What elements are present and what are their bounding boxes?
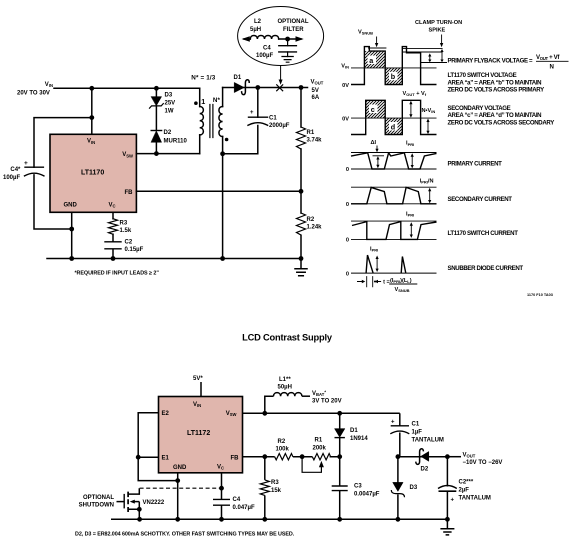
node junction rail-C3 [337,517,342,522]
ground symbol main [295,259,307,276]
svg-text:25V: 25V [165,101,176,107]
node top reference line [351,186,437,188]
node junction C1 [255,85,260,90]
svg-text:R2: R2 [278,439,286,445]
waveform secondary voltage [342,91,436,135]
svg-text:L1**: L1** [279,377,291,383]
node 0 reference line [351,168,437,170]
svg-text:0V: 0V [342,83,349,89]
svg-text:GND: GND [64,203,78,209]
capacitor C1 1uF tantalum [390,413,444,456]
svg-text:R3: R3 [271,480,279,486]
zener D3 25V 1W [150,93,176,115]
svg-text:R1: R1 [307,130,315,136]
node snubber level line [368,47,386,49]
svg-text:N* = 1/3: N* = 1/3 [191,74,215,81]
svg-text:D2: D2 [421,467,429,473]
svg-text:D2, D3 = ER82.004 600mA SCHOTT: D2, D3 = ER82.004 600mA SCHOTTKY. OTHER … [75,532,295,538]
svg-text:0: 0 [346,272,349,278]
svg-text:0V: 0V [342,116,349,122]
node junction VSW-L1 [262,411,267,416]
svg-text:20V TO 30V: 20V TO 30V [17,91,50,97]
svg-text:LCD Contrast Supply: LCD Contrast Supply [242,333,333,343]
svg-text:IPRI/N: IPRI/N [420,178,434,184]
wire primary current trace [351,153,437,169]
node junction VSW-D1 [337,411,342,416]
svg-text:1.24k: 1.24k [307,225,323,231]
wire VC pin drop [221,473,223,520]
svg-text:5µH: 5µH [250,27,261,33]
waveform secondary current [346,178,437,208]
node junction FB divider [299,189,304,194]
svg-text:(IPRI)(LL): (IPRI)(LL) [390,278,412,284]
svg-text:VIN: VIN [45,82,53,88]
node junction rail-R3 [262,517,267,522]
node junction C4 branch [89,115,94,120]
diode D2 MUR110 [151,130,187,145]
wire VC pin drop [112,212,114,258]
wire C4 branch [34,118,92,229]
svg-text:C4: C4 [233,497,241,503]
node 0 reference line [351,203,437,205]
node junction rail-R2 [299,256,304,261]
svg-text:D3: D3 [410,485,418,491]
svg-text:CLAMP TURN-ON: CLAMP TURN-ON [415,20,462,26]
svg-text:E1: E1 [162,456,170,462]
wire secondary current trace [351,187,437,203]
diode D3 schottky [391,457,418,520]
resistor R2 1.24k [297,191,323,258]
wire VIN pin [200,382,202,397]
transformer T1 primary [194,88,205,153]
svg-text:3V TO 20V: 3V TO 20V [312,399,342,405]
svg-text:D1: D1 [350,428,358,434]
svg-text:C1: C1 [412,422,420,428]
node junction C1-D2-D3 [396,454,401,459]
node junction output [299,85,304,90]
svg-text:0: 0 [346,167,349,173]
svg-text:0.0047µF: 0.0047µF [354,492,380,498]
wire E1 pin [138,456,158,458]
svg-text:VOUT: VOUT [463,453,476,459]
diode D1 [234,75,250,95]
waveform primary current [346,140,437,173]
wire secondary ground drop [222,154,224,259]
node junction rail-GND [69,256,74,261]
svg-text:0: 0 [346,202,349,208]
svg-text:VC: VC [217,465,224,471]
svg-text:TANTALUM: TANTALUM [412,438,444,444]
svg-text:VSW: VSW [226,411,237,417]
svg-text:VSW: VSW [122,152,133,158]
svg-text:0.047µF: 0.047µF [233,505,255,511]
wire top input rail [54,87,200,89]
svg-text:+: + [451,498,455,504]
capacitor C3 0.0047uF [332,457,380,520]
ground symbol bottom [440,519,454,535]
node VOUT label [311,80,324,102]
capacitor C4 filter [287,39,289,46]
svg-text:−10V TO −26V: −10V TO −26V [463,460,503,466]
node VBAT label [312,390,342,405]
wire VSW line [243,412,400,414]
inductor L1 50uH [265,377,310,413]
resistor R3 1.5k [109,219,132,235]
svg-text:IPRI: IPRI [406,141,414,147]
svg-text:LT1172: LT1172 [187,430,210,437]
wire VIN pin drop [91,88,93,134]
svg-text:AREA “c” = AREA “d” TO MAINTAI: AREA “c” = AREA “d” TO MAINTAIN [448,112,542,119]
wire FB line [136,190,301,192]
svg-text:3.74k: 3.74k [307,138,323,144]
svg-text:R1: R1 [315,438,323,444]
svg-text:VIN: VIN [193,402,201,408]
resistor R1 3.74k [297,88,323,192]
diode D2 schottky [416,449,429,473]
hatched area d [385,118,402,134]
svg-text:6A: 6A [312,95,320,101]
svg-text:OPTIONAL: OPTIONAL [278,19,309,25]
node measurement arrows [429,56,431,61]
svg-text:C4*: C4* [10,167,21,173]
node flyback voltage level line [421,62,447,64]
wire GND pin drop [71,212,73,258]
svg-text:VSNUB: VSNUB [395,287,410,293]
node junction C4 return [69,227,74,232]
wire bottom ground rail [47,258,301,260]
svg-text:N*: N* [213,97,221,104]
waveform LT1170 switch voltage [341,20,462,89]
wire snubber current trace [366,255,406,273]
svg-text:ZERO DC VOLTS ACROSS SECONDARY: ZERO DC VOLTS ACROSS SECONDARY [448,119,555,126]
inductor L2 [244,38,301,40]
svg-text:R3: R3 [120,221,128,227]
svg-text:IPRI: IPRI [370,247,378,253]
wire FB line [243,456,265,458]
hatched area b [385,68,402,85]
svg-text:VOUT: VOUT [311,80,324,86]
svg-text:LT1170 SWITCH CURRENT: LT1170 SWITCH CURRENT [448,230,519,237]
svg-text:1µF: 1µF [412,430,423,436]
svg-text:+: + [24,160,28,167]
node junction rail-D3 [396,517,401,522]
svg-text:R2: R2 [307,217,315,223]
svg-text:+: + [391,420,395,426]
node top reference line [351,220,437,222]
optional filter ellipse [238,7,324,66]
wire D2 line [400,456,448,458]
svg-text:VIN: VIN [341,64,349,70]
resistor R2 100k [265,439,302,460]
node junction VOUT [445,454,450,459]
svg-text:FB: FB [125,190,134,196]
svg-text:SNUBBER DIODE CURRENT: SNUBBER DIODE CURRENT [448,265,524,272]
svg-text:C2: C2 [125,240,133,246]
node ripple line [373,155,385,157]
svg-text:PRIMARY FLYBACK VOLTAGE =: PRIMARY FLYBACK VOLTAGE = [448,57,534,64]
svg-text:2000µF: 2000µF [269,123,290,129]
node 0 reference line [351,238,437,240]
wire GND pin drop [177,473,179,520]
svg-text:VBAT*: VBAT* [312,390,326,398]
node junction D1-R1-C3 [337,454,342,459]
node junction GND-E tie [175,478,180,483]
wire bottom ground rail [111,518,447,520]
node junction rail-C4 [219,517,224,522]
wire switch current trace [352,222,437,240]
svg-text:L2: L2 [254,19,262,25]
svg-text:ΔI: ΔI [371,140,377,146]
node snubber time formula [367,276,373,287]
svg-text:OPTIONAL: OPTIONAL [83,495,114,501]
node VIN reference line [351,67,437,69]
svg-text:d: d [391,122,395,131]
node junction rail-C2 [445,517,450,522]
svg-text:1170 F10 TA03: 1170 F10 TA03 [527,293,553,297]
capacitor C1 2000uF [248,88,290,130]
svg-text:C4: C4 [263,46,271,52]
svg-text:FB: FB [231,456,240,462]
node junction D3 branch [154,86,159,91]
node junction rail-GND [175,517,180,522]
node 0 reference line [351,272,437,274]
svg-text:LT1170 SWITCH VOLTAGE: LT1170 SWITCH VOLTAGE [448,72,517,79]
svg-text:AREA “a” = AREA “b” TO MAINTAI: AREA “a” = AREA “b” TO MAINTAIN [448,79,542,86]
svg-text:VIN: VIN [87,139,95,145]
node junction FB-R3 [262,454,267,459]
node clamp level lines [403,49,443,52]
svg-text:SHUTDOWN: SHUTDOWN [79,503,114,509]
wire C1 return [223,126,258,154]
wire switch voltage trace [351,47,437,85]
node junction E1 [136,455,141,460]
wire snubber branch [155,88,157,153]
op-amp U1 LT1170 regulator box [50,134,136,212]
capacitor C2 0.15uF [105,240,144,254]
optional filter insertion X [277,85,283,91]
svg-text:D3: D3 [165,93,173,99]
svg-text:1: 1 [201,97,205,106]
svg-text:IPRI: IPRI [406,212,414,218]
svg-text:100µF: 100µF [3,175,20,181]
svg-text:D2: D2 [164,130,172,136]
hatched area c [366,100,386,118]
svg-text:15k: 15k [271,488,282,494]
diode D1 1N914 [335,413,369,456]
ground symbol filter [282,57,293,63]
wire shutdown dashed line [140,487,222,489]
svg-text:VN2222: VN2222 [143,500,165,506]
svg-text:5V: 5V [312,88,319,94]
svg-text:200k: 200k [313,446,327,452]
wire output line [223,87,308,89]
wire E2-E1 tie [138,413,178,481]
svg-text:MUR110: MUR110 [164,139,188,145]
node junction R2-R1 [300,454,305,459]
svg-text:SPIKE: SPIKE [429,28,446,34]
svg-text:ZERO DC VOLTS ACROSS PRIMARY: ZERO DC VOLTS ACROSS PRIMARY [448,87,545,94]
svg-text:LT1170: LT1170 [81,170,104,177]
svg-text:0.15µF: 0.15µF [125,247,144,253]
svg-text:1N914: 1N914 [350,436,368,442]
node top reference line [351,152,437,154]
op-amp U2 LT1172 regulator box [159,397,243,473]
resistor R3 15k [260,457,281,520]
svg-text:C3: C3 [354,484,362,490]
svg-text:0: 0 [346,238,349,244]
svg-text:N: N [550,64,554,71]
svg-text:*REQUIRED IF INPUT LEADS ≥ 2": *REQUIRED IF INPUT LEADS ≥ 2" [75,271,160,277]
svg-text:VSNUB: VSNUB [358,30,373,36]
svg-text:b: b [391,72,396,81]
svg-text:100k: 100k [276,447,290,453]
svg-text:C2***: C2*** [459,480,474,486]
svg-text:GND: GND [173,465,187,471]
svg-text:VC: VC [109,203,116,209]
node VOUT label [447,453,502,467]
svg-text:D1: D1 [234,75,242,81]
waveform snubber diode current [346,247,437,294]
hatched area a [364,51,385,68]
node 0V reference line [351,117,437,119]
svg-text:SECONDARY VOLTAGE: SECONDARY VOLTAGE [448,105,511,112]
svg-text:SECONDARY CURRENT: SECONDARY CURRENT [448,196,513,203]
resistor R1 200k potentiometer [302,438,340,473]
svg-text:50µH: 50µH [278,385,292,391]
svg-text:VOUT + Vf: VOUT + Vf [536,54,560,61]
node junction rail-C2 [111,256,116,261]
svg-text:1.5k: 1.5k [120,228,132,234]
transformer T1 secondary [191,74,228,153]
capacitor C4 0.047uF [213,497,255,511]
node junction snubber-VSW [154,151,159,156]
transistor Q1 VN2222 MOSFET [79,488,165,519]
svg-text:E2: E2 [162,411,170,417]
node junction rail-source [137,517,142,522]
svg-text:c: c [371,105,375,114]
transformer T1 core [210,105,213,138]
svg-text:C1: C1 [269,116,277,122]
svg-text:1W: 1W [165,109,174,115]
svg-text:TANTALUM: TANTALUM [459,496,491,502]
svg-text:2µF: 2µF [459,488,470,494]
svg-text:VOUT + Vf: VOUT + Vf [403,91,427,97]
waveform LT1170 switch current [346,212,437,244]
node junction secondary bottom [220,151,225,156]
wire VSW line [136,153,199,155]
wire filter pointer arrow [280,66,282,81]
capacitor C2 2uF tantalum [438,457,491,520]
node junction VIN drop [89,86,94,91]
node junction VC dashed [219,486,224,491]
svg-text:100µF: 100µF [256,53,273,59]
svg-text:N•VIN: N•VIN [422,108,436,114]
node waveform description texts [448,54,569,297]
node junction rail-secondary [220,256,225,261]
svg-text:PRIMARY CURRENT: PRIMARY CURRENT [448,161,503,168]
svg-text:FILTER: FILTER [283,27,304,33]
wire secondary voltage trace [351,100,437,134]
svg-text:+: + [250,110,254,116]
svg-text:5V*: 5V* [193,376,203,382]
capacitor C4 100uF [3,160,44,181]
node VIN input label [17,82,53,97]
